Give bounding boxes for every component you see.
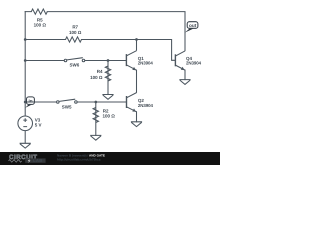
- svg-text:in: in: [29, 98, 33, 103]
- Q2 emitter arrow: [132, 109, 136, 112]
- wire SW5 to Q2 base: [77, 101, 126, 103]
- wire left rail: [24, 12, 26, 116]
- junction rail/R7: [24, 38, 27, 41]
- wire Q2 emitter to ground: [136, 112, 138, 122]
- junction rail/SW5: [24, 101, 27, 104]
- ground under Q4: [179, 80, 190, 85]
- wire R4 down to ground: [107, 61, 109, 95]
- svg-text:LAB: LAB: [33, 158, 42, 163]
- svg-text:100 Ω: 100 Ω: [90, 75, 103, 80]
- transistor Q2: [127, 92, 137, 112]
- svg-text:100 Ω: 100 Ω: [103, 114, 116, 119]
- footer LAB box: [25, 158, 45, 162]
- resistor R7: [66, 37, 82, 42]
- wire Q1 emitter to Q2 collector: [136, 70, 138, 92]
- switch SW5: [57, 99, 78, 103]
- ground under R4: [102, 95, 113, 100]
- resistor R5: [31, 9, 47, 14]
- junction R4: [107, 59, 110, 62]
- svg-text:http://circuitlab.com/c/b75kca: http://circuitlab.com/c/b75kca: [57, 157, 101, 161]
- node in flag: [25, 97, 34, 108]
- footer CircuitLab logo: [9, 154, 38, 162]
- svg-text:SW6: SW6: [70, 63, 80, 68]
- wire R2 down to ground: [95, 102, 97, 135]
- wire SW5 row left: [25, 101, 56, 103]
- Q1 emitter arrow: [132, 67, 136, 70]
- svg-text:100 Ω: 100 Ω: [34, 22, 47, 27]
- junction R2: [94, 101, 97, 104]
- switch SW6: [64, 58, 85, 62]
- ground under Q2: [131, 122, 142, 127]
- wire top net R5 to Q4 collector: [25, 12, 185, 51]
- wire R7 row to Q4 base: [25, 40, 175, 61]
- svg-text:2N3904: 2N3904: [138, 103, 154, 108]
- svg-text:2N3904: 2N3904: [138, 61, 154, 66]
- wire SW6 row left: [25, 60, 64, 62]
- svg-text:100 Ω: 100 Ω: [69, 30, 82, 35]
- svg-text:SW5: SW5: [62, 105, 72, 110]
- svg-text:out: out: [189, 23, 197, 28]
- ground under V3: [20, 143, 31, 148]
- wire Q4 emitter to ground: [184, 70, 186, 80]
- transistor Q4: [175, 51, 185, 71]
- resistor R4: [105, 66, 110, 81]
- svg-text:2N3904: 2N3904: [186, 61, 202, 66]
- svg-text:R7: R7: [72, 24, 78, 29]
- svg-text:R4: R4: [97, 69, 103, 74]
- resistor R2: [93, 108, 98, 123]
- svg-text:5 V: 5 V: [35, 122, 42, 127]
- Q4 emitter arrow: [181, 67, 185, 70]
- wire SW6 to Q1 base: [85, 60, 127, 62]
- node out flag: [185, 22, 198, 33]
- ground under R2: [90, 135, 101, 140]
- transistor Q1: [126, 40, 136, 71]
- footer bar: [0, 152, 220, 165]
- junction rail/SW6: [24, 59, 27, 62]
- voltage source V3: [18, 116, 33, 143]
- junction Q1 collector: [135, 38, 138, 41]
